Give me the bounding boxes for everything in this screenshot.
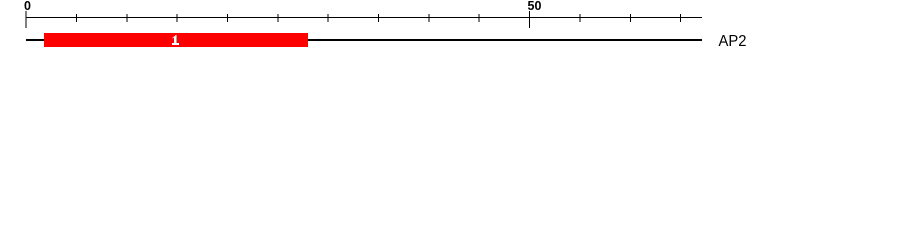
minor tick 65 [680, 14, 681, 22]
minor tick 40 [429, 14, 430, 22]
minor tick 55 [580, 14, 581, 22]
svg-text:AP2: AP2 [719, 33, 747, 50]
minor tick 60 [630, 14, 631, 22]
svg-text:50: 50 [528, 0, 542, 13]
feature baseline wire [26, 39, 702, 41]
minor tick 45 [479, 14, 480, 22]
minor tick 10 [127, 14, 128, 22]
minor tick 25 [278, 14, 279, 22]
svg-text:0: 0 [24, 0, 31, 13]
ruler scale line [26, 17, 702, 18]
feature box 1 (red domain bar) [44, 33, 308, 47]
background [0, 0, 900, 58]
feature label 1 (white digit) [172, 35, 179, 45]
minor tick 30 [328, 14, 329, 22]
major tick 50 [529, 11, 530, 28]
major tick 0 [26, 11, 27, 28]
minor tick 15 [177, 14, 178, 22]
minor tick 5 [76, 14, 77, 22]
minor tick 20 [227, 14, 228, 22]
minor tick 35 [378, 14, 379, 22]
